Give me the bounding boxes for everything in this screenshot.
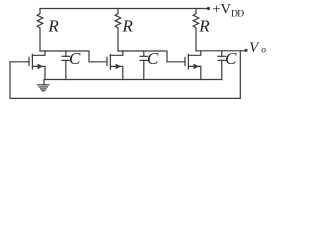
capacitor C1 bbox=[62, 51, 70, 80]
svg-text:V: V bbox=[249, 40, 260, 56]
node VDD terminal bbox=[207, 7, 210, 10]
svg-text:C: C bbox=[147, 49, 159, 68]
capacitor C2 bbox=[140, 51, 148, 80]
capacitor C3 bbox=[218, 51, 226, 80]
transistor Q3 bbox=[185, 51, 201, 80]
transistor Q1 bbox=[10, 51, 45, 80]
wire feedback loop bbox=[10, 51, 240, 99]
wire VDD top rail bbox=[40, 8, 209, 10]
svg-text:+VDD: +VDD bbox=[212, 2, 244, 20]
svg-text:R: R bbox=[198, 17, 210, 36]
wire drain node 2 to gate 3 bbox=[118, 51, 185, 62]
svg-text:R: R bbox=[122, 17, 134, 36]
resistor R1 bbox=[37, 9, 43, 52]
svg-text:C: C bbox=[69, 49, 81, 68]
wire ground rail bbox=[45, 79, 222, 81]
wire drain node 3 to Vo terminal bbox=[196, 50, 246, 52]
svg-text:C: C bbox=[225, 49, 237, 68]
svg-text:o: o bbox=[261, 45, 266, 55]
resistor R2 bbox=[115, 9, 121, 52]
ground bbox=[38, 80, 49, 91]
resistor R3 bbox=[193, 9, 199, 52]
transistor Q2 bbox=[107, 51, 123, 80]
wire drain node 1 to gate 2 bbox=[40, 51, 107, 62]
svg-text:R: R bbox=[47, 17, 59, 36]
node Vo terminal bbox=[244, 49, 247, 52]
